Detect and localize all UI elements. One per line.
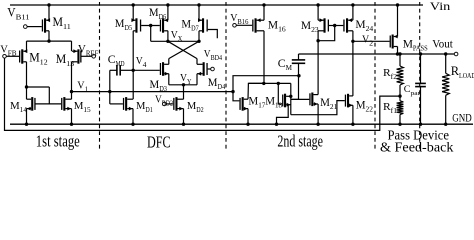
resistor RLOAD [445, 54, 447, 73]
wire MD2 source to GND [183, 109, 185, 125]
transistor MD3 [160, 62, 169, 76]
svg-text:V: V [362, 34, 369, 46]
svg-text:X: X [178, 35, 183, 43]
transistor MD1 [123, 97, 133, 111]
svg-text:M: M [356, 99, 366, 111]
svg-text:GND: GND [452, 113, 472, 125]
wire M15 drain to V1 [71, 92, 73, 100]
svg-text:4: 4 [143, 61, 147, 69]
svg-text:V: V [136, 55, 143, 67]
terminal Vout [454, 52, 458, 56]
svg-text:M: M [403, 37, 414, 51]
svg-text:M: M [149, 7, 159, 19]
svg-text:D1: D1 [145, 106, 153, 114]
wire MD7 drain to VX [198, 31, 200, 42]
wire M18 gate riser [278, 83, 282, 104]
transistor MD4 [197, 62, 208, 76]
wire MD4 gate to VBD4 [208, 68, 211, 70]
svg-text:23: 23 [311, 25, 319, 34]
transistor M11 [42, 18, 50, 32]
wire VBD2 to MD2 gate [166, 103, 173, 105]
node VX line [151, 40, 199, 42]
svg-text:f1: f1 [391, 107, 398, 115]
svg-text:V: V [171, 29, 178, 41]
svg-text:M: M [320, 97, 330, 109]
transistor M15 [61, 97, 71, 111]
svg-text:18: 18 [275, 102, 283, 110]
wire VY to MD2 drain [183, 85, 185, 99]
wire M21 source to GND [317, 104, 319, 124]
svg-text:M: M [56, 52, 67, 66]
wire cross couple VX to MD3 drain [169, 41, 199, 58]
svg-text:f2: f2 [391, 73, 398, 81]
transistor M23 [318, 18, 329, 32]
svg-text:B16: B16 [237, 19, 249, 26]
wire V1 tap to M17 gate [233, 92, 239, 101]
svg-text:V: V [0, 43, 8, 55]
capacitor CM [292, 59, 305, 61]
wire feedback tap to VFB [5, 58, 401, 130]
svg-text:PASS: PASS [413, 45, 428, 53]
wire mirror gate tie M14 M15 [27, 86, 50, 88]
transistor M16 [252, 18, 264, 32]
svg-text:M: M [29, 50, 40, 64]
wire V1 input riser to line A [233, 76, 299, 92]
terminal VB16 [233, 24, 237, 28]
wire M23 source to Vin rail [317, 5, 319, 20]
svg-text:MD: MD [116, 60, 125, 68]
wire MPASS drain to Vout line [397, 47, 399, 55]
svg-text:M: M [53, 15, 64, 29]
wire M24 drain to node V2 to M22 drain [352, 31, 354, 96]
svg-text:M: M [181, 18, 191, 30]
svg-text:M: M [10, 100, 20, 112]
transistor M18 [282, 94, 291, 108]
wire M13 drain to node V1 [71, 62, 73, 92]
svg-text:BD2: BD2 [162, 101, 174, 108]
svg-text:M: M [286, 64, 293, 72]
terminal VBD2 [163, 102, 167, 106]
wire VFB to M12 gate [6, 55, 19, 57]
wire MD1 source to GND [132, 109, 134, 125]
section divider dashed line feedback/load [419, 2, 421, 150]
node V4 [132, 69, 135, 72]
svg-text:& Feed-back: & Feed-back [380, 141, 454, 155]
svg-text:M: M [248, 96, 258, 108]
wire M17 drain to line B [248, 83, 264, 99]
wire MPASS source to Vin rail [397, 5, 399, 37]
wire MD7 gate bias stub VBD4 [208, 30, 218, 39]
svg-text:M: M [208, 77, 218, 89]
svg-text:1: 1 [85, 86, 89, 94]
feedback tap node [399, 85, 401, 101]
transistor M14 [27, 97, 36, 111]
wire gate tie to node VX [150, 26, 152, 42]
wire CM top plate to Vout line [298, 54, 300, 60]
capacitor CMD [116, 65, 118, 76]
svg-text:12: 12 [40, 57, 48, 66]
wire MD4 source to VY line [196, 74, 198, 85]
wire M13 gate to VREF [81, 55, 92, 57]
svg-text:D5: D5 [125, 24, 133, 32]
wire M23 M24 gate tie [329, 25, 343, 27]
wire M16 drain to line B [263, 31, 265, 84]
terminal VBD4 [211, 67, 215, 71]
wire common source line of M12 M13 [27, 40, 72, 42]
Vout line [299, 53, 455, 55]
svg-text:B11: B11 [16, 12, 30, 21]
svg-text:14: 14 [20, 106, 28, 114]
svg-text:M: M [355, 17, 366, 31]
svg-text:BD4: BD4 [211, 55, 223, 62]
wire MD6 source to Vin rail [167, 5, 169, 20]
transistor MD6 [160, 18, 168, 32]
wire MD5 drain to node V4 [132, 31, 134, 71]
resistor Rf2 [399, 54, 401, 66]
wire M18 drain node [290, 83, 292, 114]
section divider dashed line DFC/2nd-stage [225, 2, 227, 150]
wire M23 diode connection [318, 26, 335, 41]
svg-text:Vout: Vout [432, 39, 453, 51]
svg-text:M: M [268, 17, 279, 31]
transistor MPASS [390, 35, 398, 49]
wire V4 down to MD1 drain [132, 70, 134, 99]
svg-text:M: M [301, 18, 312, 32]
svg-text:C: C [404, 85, 411, 95]
svg-text:V: V [77, 80, 84, 92]
svg-text:M: M [187, 100, 197, 112]
svg-text:FB: FB [8, 50, 17, 57]
wire M11 drain to diff pair common source node [48, 31, 50, 41]
wire CM bottom plate to line A and M18 drain node [298, 63, 300, 99]
wire cross couple VX to MD4 drain [168, 41, 197, 58]
node VY line [169, 84, 197, 86]
wire V2 to MPASS gate [353, 40, 390, 42]
svg-text:Vin: Vin [430, 1, 451, 13]
wire M22 source to GND [352, 105, 354, 124]
capacitor Cpar [420, 54, 422, 83]
transistor M12 [19, 49, 27, 63]
svg-text:V: V [7, 5, 15, 19]
svg-text:15: 15 [83, 106, 91, 114]
wire M14 source to GND [26, 109, 28, 125]
wire M15 source to GND [71, 109, 73, 125]
wire M17 source to GND [247, 109, 249, 125]
wire VB11 to M11 gate [27, 26, 42, 28]
wire M18 source to GND [277, 105, 289, 125]
wire V1 riser down to MD1 gate [109, 92, 111, 104]
wire CMD right plate to node V4 [120, 69, 133, 71]
wire M16 source to Vin rail [263, 5, 265, 20]
terminal VFB [3, 55, 7, 59]
transistor MD5 [131, 18, 141, 32]
wire MD7 source to Vin rail [198, 5, 200, 20]
svg-text:D3: D3 [159, 85, 167, 93]
wire M11 source to Vin rail [48, 5, 50, 20]
svg-text:24: 24 [366, 24, 374, 33]
section divider dashed line 2nd-stage/Pass-Device [374, 2, 376, 150]
svg-text:D4: D4 [218, 83, 226, 91]
svg-text:D6: D6 [159, 13, 167, 21]
wire M18 node to M22 gate routing [291, 101, 345, 115]
section divider dashed line 1st-stage/DFC [99, 2, 101, 150]
line B second stage node [248, 82, 290, 84]
svg-text:D7: D7 [191, 24, 199, 32]
node V1 [70, 90, 73, 93]
svg-text:22: 22 [366, 105, 374, 113]
transistor MD7 [198, 18, 208, 32]
terminal VREF [92, 55, 96, 59]
wire CMD left plate to V1 riser [110, 69, 117, 71]
svg-text:1st stage: 1st stage [36, 131, 80, 150]
wire MD4 drain to diagonal [196, 59, 198, 65]
svg-text:21: 21 [330, 103, 338, 111]
wire MD6 drain to VX [167, 31, 169, 42]
wire MD3 source to VY line [168, 74, 170, 85]
svg-text:M: M [265, 96, 275, 108]
transistor M24 [343, 18, 353, 32]
Vin supply rail [10, 4, 423, 6]
svg-text:DFC: DFC [147, 132, 171, 151]
transistor M17 [239, 97, 248, 111]
transistor M13 [72, 49, 82, 63]
wire node V1 to 2nd stage input [72, 91, 234, 93]
resistor Rf1 [397, 101, 404, 115]
svg-text:2: 2 [369, 40, 374, 48]
svg-text:V: V [180, 72, 187, 84]
svg-text:2nd stage: 2nd stage [277, 131, 323, 150]
terminal VB11 [24, 25, 28, 29]
wire MD5 source to Vin rail [132, 5, 134, 20]
wire VB16 to M16 gate [236, 24, 252, 26]
svg-text:13: 13 [66, 59, 74, 68]
wire MD5 MD6 gate tie [141, 25, 160, 27]
svg-text:par: par [411, 90, 422, 97]
svg-text:11: 11 [63, 22, 71, 31]
wire MD3 drain to diagonal [168, 59, 170, 65]
transistor M22 [345, 94, 353, 108]
node V2 [351, 40, 354, 43]
transistor M21 [309, 93, 318, 107]
svg-text:D2: D2 [196, 106, 204, 114]
wire M23 drain to M21 drain [317, 31, 319, 95]
svg-text:M: M [136, 100, 146, 112]
wire V4 to MD3 gate [133, 69, 160, 71]
wire M12 drain to M14 drain node [26, 62, 28, 99]
svg-text:V: V [230, 12, 237, 24]
svg-text:M: M [115, 18, 125, 30]
svg-text:M: M [74, 100, 84, 112]
GND rail [10, 123, 473, 125]
svg-text:REF: REF [86, 51, 99, 58]
svg-text:Y: Y [187, 78, 191, 86]
svg-text:M: M [150, 79, 160, 91]
wire M18 node to M21 gate [291, 98, 310, 100]
svg-text:16: 16 [278, 24, 286, 33]
svg-text:LOAD: LOAD [459, 72, 474, 80]
transistor MD2 [173, 97, 183, 111]
wire M24 source to Vin rail [352, 5, 354, 20]
